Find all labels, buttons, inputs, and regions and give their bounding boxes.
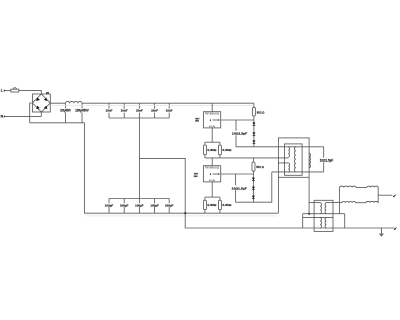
wire T1 shield left leg to bus [277, 177, 279, 213]
capacitor C7 [166, 103, 173, 118]
winding T1 primary upper [288, 147, 289, 158]
wire clamp return to T1 [236, 146, 324, 148]
wire lower capacitor rail [109, 198, 169, 200]
node output 2 arrow [393, 227, 397, 230]
capacitor C6 [151, 103, 158, 118]
node N (input terminal) [1, 114, 6, 118]
svg-text:TNY266 (U1): TNY266 (U1) [205, 113, 219, 115]
svg-text:10nF: 10nF [151, 109, 158, 113]
wire T1 lower primary top tap [278, 162, 288, 164]
fuse F1 [11, 88, 19, 92]
wire bridge left corner to minus rail [30, 103, 33, 123]
svg-text:100µ450V: 100µ450V [60, 109, 71, 113]
winding T1 bias (on shield edge) [309, 153, 310, 168]
node T2 junction dot [308, 213, 310, 215]
label U1 part number [195, 118, 200, 122]
wire plus rail (bridge right corner to 5K2 resistor) [50, 102, 254, 104]
snubber R2 C13 (10R 1.5nF) [232, 120, 248, 147]
capacitor C12 [165, 199, 174, 214]
wire T2 top left feed [309, 202, 320, 204]
wire U2 bottom to pair 2 [211, 182, 213, 197]
wire pair bottom bar to T1 primary tap [205, 157, 288, 159]
wire output 1 [378, 194, 392, 196]
svg-text:10nF: 10nF [166, 109, 173, 113]
svg-text:4 (2): 4 (2) [209, 125, 216, 128]
bridge rectifier B1 [32, 93, 50, 112]
choke L2 lower winding [339, 201, 378, 202]
svg-text:10nF: 10nF [121, 109, 128, 113]
resistor R3 (0.33) [204, 142, 217, 158]
winding T2 upper right [325, 203, 326, 214]
svg-text:0.33Ω: 0.33Ω [222, 203, 231, 207]
wire T2 lower mid line [303, 216, 333, 218]
transformer T1 shield box [278, 138, 309, 177]
wire ghost artifacts [52, 104, 253, 106]
svg-text:266: 266 [195, 121, 199, 123]
capacitor C1 [60, 103, 71, 123]
svg-text:100µF: 100µF [120, 203, 129, 207]
wire resistor pair 2 top bar [205, 196, 220, 198]
svg-text:N: N [1, 114, 4, 118]
svg-text:266: 266 [194, 176, 198, 178]
svg-text:10Ω1.5µF: 10Ω1.5µF [232, 186, 248, 190]
resistor R1 (5K2) [252, 103, 265, 120]
wire rail to U1 top [211, 103, 213, 112]
wire T2 right to choke lower [326, 202, 339, 204]
svg-text:100µF: 100µF [135, 203, 144, 207]
winding T1 primary lower [288, 163, 289, 172]
wire center stack link [138, 118, 140, 199]
wire choke left leg [338, 187, 340, 213]
diode D6 [252, 196, 255, 199]
svg-text:100µ450V: 100µ450V [75, 109, 89, 113]
wire top capacitor bank bus [109, 117, 169, 119]
svg-text:0.33Ω: 0.33Ω [207, 148, 216, 152]
wire choke mid drop [344, 214, 346, 228]
snubber R9 C15 on T1 [320, 147, 334, 172]
capacitor C3 [106, 103, 113, 118]
wire pair bar to U2 top [211, 158, 213, 166]
svg-text:5: 5 [210, 120, 212, 122]
svg-text:100µF: 100µF [105, 203, 114, 207]
diode D1 [252, 120, 255, 147]
transformer T2 box [314, 200, 333, 231]
svg-text:L: L [1, 89, 3, 93]
svg-text:5K2 Ω: 5K2 Ω [257, 110, 265, 114]
capacitor C11 [150, 199, 159, 214]
wire T2 left return [302, 214, 304, 228]
wire resistor pair top bar [205, 141, 220, 143]
wire L terminal to fuse [6, 90, 11, 92]
resistor R5 (5K2) [252, 158, 264, 174]
inductor L1 [66, 101, 83, 103]
wire T2 mid line [303, 213, 345, 215]
svg-text:0.33Ω: 0.33Ω [207, 203, 216, 207]
winding T2 lower right [325, 218, 326, 229]
resistor R7 (0.33) [204, 197, 217, 213]
wire choke right leg [377, 187, 379, 202]
resistor R4 (0.33) [219, 142, 232, 158]
label U2 part number [194, 174, 199, 178]
resistor R8 (0.33) [219, 197, 232, 213]
wire bottom bus [84, 212, 278, 214]
choke L2 upper winding [339, 186, 378, 187]
svg-text:4 (2): 4 (2) [209, 179, 216, 182]
IC U1 [203, 112, 220, 129]
winding T2 lower left [320, 218, 321, 229]
svg-text:0.33Ω: 0.33Ω [222, 148, 231, 152]
node L (input terminal) [1, 89, 6, 93]
diode D4 [252, 174, 255, 202]
capacitor C8 [105, 199, 114, 214]
svg-text:10nF: 10nF [106, 109, 113, 113]
svg-text:TNY266 (U2): TNY266 (U2) [205, 167, 219, 169]
capacitor C2 [75, 103, 89, 123]
wire U1 bottom to pair [211, 128, 213, 142]
svg-text:5K2 Ω: 5K2 Ω [256, 165, 264, 169]
capacitor C9 [120, 199, 129, 214]
svg-text:10nF: 10nF [136, 109, 143, 113]
winding T1 secondary [295, 147, 296, 172]
wire clamp 2 return [236, 172, 272, 202]
diode D3 [252, 140, 255, 143]
snubber R6 C14 (10R 1.5nF) [232, 174, 248, 202]
winding T2 upper left [320, 203, 321, 214]
capacitor C5 [136, 103, 143, 118]
transformer T1 core box [285, 144, 303, 175]
wire minus link under bridge [30, 123, 85, 213]
wire T1 right leg down to T2 [308, 177, 310, 213]
svg-text:100µF: 100µF [165, 203, 174, 207]
wire N terminal to bridge bottom [6, 112, 42, 116]
node bus junction dot [184, 212, 186, 214]
wire fuse to bridge top [19, 91, 42, 94]
IC U2 [203, 166, 220, 183]
ground [379, 228, 384, 237]
svg-text:5: 5 [210, 174, 212, 176]
wire midpoint branch to bus [139, 158, 185, 213]
capacitor C4 [121, 103, 128, 118]
wire U1 drain line [221, 119, 254, 121]
svg-text:10Ω1.5µF: 10Ω1.5µF [320, 158, 334, 162]
svg-text:100µF: 100µF [150, 203, 159, 207]
node output 1 arrow [393, 194, 397, 197]
wire return line to outputs [185, 213, 394, 228]
svg-text:10Ω1.5µF: 10Ω1.5µF [232, 132, 248, 136]
wire T1 secondary bottom line [272, 171, 324, 173]
wire U2 drain line [221, 173, 254, 175]
diode D5 [252, 187, 255, 190]
diode D2 [252, 132, 255, 135]
capacitor C10 [135, 199, 144, 214]
